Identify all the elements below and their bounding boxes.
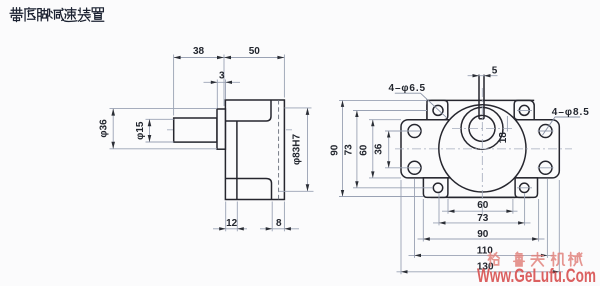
dim 73v line	[356, 111, 358, 188]
dim phi36 extension lines	[110, 108, 218, 110]
dim 5 arrows	[473, 74, 480, 77]
svg-text:5: 5	[492, 66, 498, 77]
hole crosshair ticks right side	[517, 110, 554, 187]
input boss circle	[461, 107, 503, 149]
title char su	[64, 8, 77, 22]
inner wall line	[236, 121, 238, 200]
flange hole top-left	[433, 105, 443, 115]
watermark char ge	[488, 253, 499, 266]
watermark char lu	[514, 252, 524, 266]
svg-text:73: 73	[477, 213, 489, 224]
dim 8 arrows	[266, 227, 273, 230]
wing hole top-right	[539, 125, 552, 138]
svg-text:4–φ8.5: 4–φ8.5	[552, 107, 589, 118]
svg-text:Www.GeLufu.Com: Www.GeLufu.Com	[477, 266, 596, 286]
dim phi15 arrows	[148, 119, 152, 126]
bore step bottom contour	[225, 179, 271, 200]
output flange (rounded square)	[427, 100, 534, 197]
dim phi15 line	[149, 119, 151, 142]
left dims extension lines (horizontal)	[339, 99, 427, 101]
title char di	[25, 8, 36, 22]
watermark char ji	[551, 253, 564, 266]
title char jian	[51, 8, 64, 20]
svg-text:18: 18	[498, 132, 509, 144]
dim 130 line	[397, 271, 564, 273]
dim 73h line	[433, 222, 531, 224]
dim 3 extension line	[216, 80, 218, 109]
svg-text:60: 60	[358, 144, 369, 156]
dim 110 line	[409, 254, 554, 256]
watermark char xie	[569, 253, 582, 266]
dim phi83H7 extension lines	[284, 107, 311, 109]
flange pad top-left	[427, 100, 448, 119]
dim 18 line	[506, 116, 508, 132]
housing big circle	[439, 105, 526, 192]
flange pad bottom-left	[423, 178, 448, 198]
flange pad bottom-right	[515, 178, 537, 198]
watermark char fu	[531, 253, 544, 266]
dim 60v line	[372, 120, 374, 178]
dim 12 line	[213, 228, 247, 230]
svg-text:73: 73	[344, 144, 355, 156]
gearbox body (side view)	[225, 100, 284, 200]
dim 3 arrows	[211, 81, 218, 84]
title char zhuang	[78, 8, 90, 21]
svg-text:12: 12	[226, 218, 238, 229]
title char jiao	[38, 8, 50, 20]
dim phi83H7 arrows	[306, 108, 310, 115]
dim 12/8 extension lines	[225, 202, 227, 232]
dim 60h line	[442, 210, 518, 212]
svg-text:38: 38	[193, 46, 205, 57]
dim 90h line	[418, 238, 545, 240]
bore step top contour	[225, 100, 271, 121]
dim 8 line	[260, 228, 299, 230]
dim 38/50 line	[174, 57, 285, 59]
svg-text:8: 8	[276, 218, 282, 229]
dim 36v line	[388, 131, 390, 168]
input bore circle phi18	[469, 115, 495, 141]
dim phi15 extension lines	[146, 118, 174, 120]
dim 90v line	[342, 100, 344, 196]
dim phi83H7 line	[307, 108, 309, 191]
wing hole bottom-left	[408, 161, 421, 174]
dim 5 line	[468, 75, 498, 77]
svg-text:φ15: φ15	[135, 121, 146, 140]
svg-text:90: 90	[330, 144, 341, 156]
flange hole top-right	[519, 105, 529, 115]
dim 12 arrows	[219, 227, 226, 230]
hidden bore line (dashed)	[278, 100, 280, 200]
title char zhi	[92, 8, 104, 21]
leader 4-phi6.5	[395, 93, 447, 117]
input shaft	[174, 118, 217, 142]
dim phi36 line	[112, 109, 114, 149]
boss centerline	[452, 127, 514, 129]
dim 38/50 extension lines	[173, 55, 175, 116]
horizontal centerline	[395, 148, 572, 150]
foot wings plate	[401, 120, 559, 178]
shaft collar	[217, 109, 225, 149]
wing hole bottom-right	[539, 161, 552, 174]
svg-text:36: 36	[373, 143, 384, 155]
vertical centerline	[481, 88, 483, 214]
centerline shaft axis	[167, 129, 292, 131]
svg-text:3: 3	[219, 71, 225, 82]
svg-text:φ83H7: φ83H7	[292, 134, 303, 165]
flange hole bottom-right	[520, 183, 529, 192]
flange pad top-right	[514, 100, 534, 119]
svg-text:90: 90	[477, 229, 489, 240]
leader 4-phi8.5	[542, 117, 580, 135]
key slot	[479, 75, 484, 119]
svg-text:φ36: φ36	[99, 119, 110, 138]
dim phi36 arrows	[111, 109, 115, 116]
flange hole bottom-left	[433, 183, 442, 192]
dim 3 line	[204, 81, 241, 83]
svg-text:4–φ6.5: 4–φ6.5	[389, 83, 426, 94]
title char dai	[10, 8, 23, 22]
wing hole top-left	[408, 125, 421, 138]
svg-text:50: 50	[249, 46, 261, 57]
svg-text:60: 60	[477, 200, 489, 211]
bottom dims extension lines (vertical)	[447, 199, 449, 214]
dim 38/50 arrows	[174, 56, 181, 60]
flange bottom edge between pads	[448, 196, 515, 198]
